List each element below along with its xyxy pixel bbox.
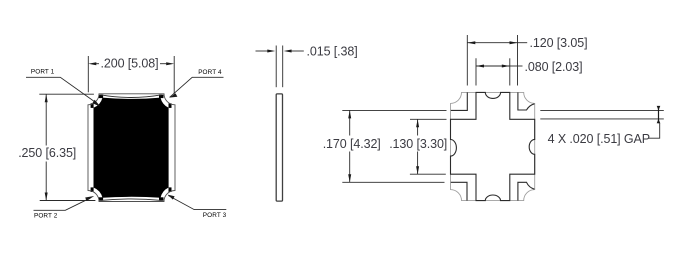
corner tab top-left top <box>99 95 104 98</box>
svg-text:.015 [.38]: .015 [.38] <box>307 44 358 58</box>
corner tab bottom-right bottom <box>159 197 164 200</box>
dimension .130 line segments and arrows <box>417 119 419 135</box>
thickness extension line left <box>275 46 277 88</box>
svg-text:.080 [2.03]: .080 [2.03] <box>525 60 583 74</box>
corner pad bottom-right <box>518 182 535 200</box>
dimension .080 connector <box>510 65 523 67</box>
svg-text:.120 [3.05]: .120 [3.05] <box>530 36 588 50</box>
svg-text:PORT 3: PORT 3 <box>203 212 227 219</box>
PORT 1 leader <box>26 77 97 103</box>
corner tab top-left side <box>91 103 94 108</box>
svg-text:PORT 4: PORT 4 <box>198 69 222 76</box>
bottom sag curve <box>101 199 162 201</box>
dimension .080 line and arrows <box>476 65 510 67</box>
side view body <box>276 94 282 201</box>
dimension .170 extension line top <box>342 109 446 111</box>
svg-text:PORT 1: PORT 1 <box>31 69 55 76</box>
top sag curve <box>101 95 162 98</box>
dimension .200 arrow left <box>88 62 96 65</box>
PORT 4 leader arrowhead <box>169 93 177 97</box>
svg-text:.200 [5.08]: .200 [5.08] <box>101 56 159 70</box>
gap leader <box>649 123 660 138</box>
svg-text:.250 [6.35]: .250 [6.35] <box>18 146 76 160</box>
dimension .250 [6.35] extension line bottom <box>40 200 96 202</box>
gap extension line upper <box>540 109 664 111</box>
body outline with corner castellations <box>88 94 175 202</box>
dimension .170 extension line bottom <box>342 181 444 183</box>
PORT 2 leader arrowhead <box>85 196 94 201</box>
svg-text:4 X .020 [.51] GAP: 4 X .020 [.51] GAP <box>548 132 650 146</box>
PORT 3 leader <box>168 196 226 210</box>
svg-text:.170 [4.32]: .170 [4.32] <box>323 137 381 151</box>
dimension .120 connector <box>518 42 528 44</box>
metallization (black pad, top view) <box>94 98 169 198</box>
dimension .120 extension line right <box>517 35 519 86</box>
dimension .015 right arrow <box>284 50 292 53</box>
dimension .130 extension line top <box>410 118 447 120</box>
dimension .120 extension line left <box>466 35 468 86</box>
corner pad top-right <box>518 92 535 110</box>
corner tab bottom-right side <box>169 187 172 192</box>
corner pad bottom-left <box>451 182 467 200</box>
dimension .250 line upper segment <box>45 94 47 145</box>
dimension .200 [5.08] extension line right <box>173 56 175 96</box>
body outline with corner castellations <box>451 92 535 200</box>
corner tab top-right side <box>169 103 172 108</box>
PORT 1 leader arrowhead <box>92 100 100 107</box>
corner tab top-right top <box>159 95 164 98</box>
dimension .120 line and arrows <box>467 42 517 44</box>
dimension .250 arrow up <box>45 94 48 102</box>
gap extension line lower <box>540 118 664 120</box>
dimension .250 arrow down <box>45 193 48 201</box>
svg-text:.130 [3.30]: .130 [3.30] <box>389 137 447 151</box>
thickness extension line right <box>282 46 284 88</box>
dimension .250 line lower segment <box>45 162 47 201</box>
center ground pad (cross) with half-hole notches <box>451 92 535 200</box>
PORT 3 leader arrowhead <box>168 195 175 200</box>
svg-text:PORT 2: PORT 2 <box>34 213 58 220</box>
corner pad top-left <box>451 92 468 110</box>
corner tab bottom-left side <box>91 187 94 192</box>
dimension .170 line segments and arrows <box>349 110 351 135</box>
dimension .130 extension line bottom <box>410 173 446 175</box>
dimension .015 left arrow <box>256 50 269 52</box>
corner tab bottom-left bottom <box>99 197 104 200</box>
dimension .080 extension line left <box>475 58 477 85</box>
dimension .200 [5.08] extension line left <box>87 56 89 92</box>
dimension .200 arrow right <box>166 62 174 65</box>
PORT 2 leader <box>34 198 91 210</box>
PORT 4 leader <box>170 77 224 97</box>
dimension .080 extension line right <box>509 58 511 85</box>
gap arrow bar <box>658 106 660 123</box>
dimension .250 [6.35] extension line top <box>39 93 94 95</box>
